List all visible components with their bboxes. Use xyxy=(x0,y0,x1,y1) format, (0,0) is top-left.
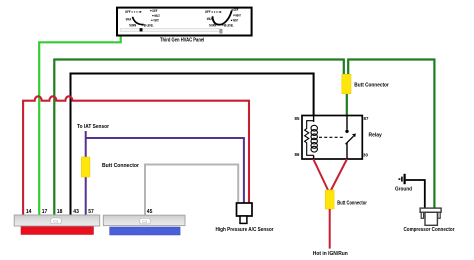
svg-text:Hot in IGN/Run: Hot in IGN/Run xyxy=(313,251,348,257)
dial 1 position dots xyxy=(142,10,154,26)
dial 1 labels xyxy=(125,8,160,28)
svg-text:18: 18 xyxy=(57,209,63,215)
panel slider black marker xyxy=(140,28,143,31)
compressor connector right tab xyxy=(438,212,440,218)
wire: gray C1 pin 45 to A/C sensor xyxy=(145,165,238,216)
svg-text:Ground: Ground xyxy=(395,186,412,192)
relay dashed actuator line xyxy=(319,136,344,138)
ground wire from compressor connector xyxy=(406,180,425,208)
panel slider gray cap xyxy=(219,29,222,34)
dial 2 labels xyxy=(205,7,241,27)
relay coil left branch with zigzag xyxy=(305,121,314,156)
svg-text:14: 14 xyxy=(26,209,32,215)
svg-text:OFF: OFF xyxy=(125,9,131,14)
high pressure A/C sensor tab xyxy=(240,216,247,223)
svg-text:30: 30 xyxy=(363,153,368,158)
butt connector B2 top right xyxy=(342,74,351,94)
compressor connector top bar xyxy=(420,208,441,212)
compressor connector left tab xyxy=(421,212,423,218)
connector C1 (red) body xyxy=(14,215,100,226)
dial 1 knob arc xyxy=(133,17,144,25)
svg-text:DEF: DEF xyxy=(234,7,239,12)
svg-text:C1: C1 xyxy=(142,220,147,224)
wire: dark green butt connector to relay pin 87 xyxy=(346,94,348,116)
relay coil loops xyxy=(311,125,317,152)
wire: purple branch to A/C sensor xyxy=(86,138,244,203)
svg-text:85: 85 xyxy=(295,116,300,121)
wire: red C1 pin 14 to A/C sensor with hops xyxy=(23,96,249,215)
svg-text:57: 57 xyxy=(88,209,94,215)
svg-text:MAX: MAX xyxy=(207,16,213,21)
wire: black C1 pin 43 to relay coil 85 xyxy=(71,74,314,216)
svg-text:Butt Connector: Butt Connector xyxy=(337,201,367,207)
wire: purple C1 pin 57 to IAT / A/C sensor xyxy=(85,131,87,215)
dial 1 OFF dashed pointer xyxy=(132,11,140,13)
svg-text:Third Gen HVAC Panel: Third Gen HVAC Panel xyxy=(160,38,205,44)
connector C1 (red) tag xyxy=(51,218,61,224)
svg-text:C1: C1 xyxy=(53,220,58,224)
wire: red relay 30 diagonal to butt connector xyxy=(331,159,347,191)
panel slider strip xyxy=(121,28,222,31)
svg-text:MAX: MAX xyxy=(126,16,132,21)
HVAC panel box xyxy=(117,8,252,36)
dial 2 position dots xyxy=(222,9,234,25)
wire: red hot feed xyxy=(329,209,331,249)
svg-text:45: 45 xyxy=(147,209,153,215)
svg-text:86: 86 xyxy=(295,152,300,157)
svg-text:43: 43 xyxy=(73,209,79,215)
relay fixed contact dot xyxy=(345,130,348,133)
pin labels C1 left xyxy=(26,209,94,215)
svg-text:87: 87 xyxy=(364,116,369,121)
wire: light green panel to C1 pin 17 xyxy=(39,37,121,216)
dial 2 knob arc xyxy=(213,11,232,25)
svg-text:Compressor Connector: Compressor Connector xyxy=(404,227,455,233)
dial 2 OFF dashed pointer xyxy=(212,11,220,13)
ground symbol xyxy=(399,174,404,184)
relay K1 box xyxy=(302,116,362,160)
wire: red relay 86 diagonal to butt connector xyxy=(313,159,328,191)
svg-text:NORM: NORM xyxy=(129,22,136,27)
relay pin 87 lead xyxy=(346,116,348,130)
relay coil bottom exit xyxy=(313,155,315,159)
relay coil feed wire xyxy=(313,116,315,122)
svg-text:17: 17 xyxy=(42,209,48,215)
relay pin 30 lead xyxy=(346,143,348,159)
butt connector B1 on purple wire xyxy=(81,157,90,177)
connector C1 (blue) body xyxy=(103,215,185,225)
connector C1 (red) base xyxy=(21,227,94,235)
high pressure A/C sensor body xyxy=(237,203,253,216)
compressor connector body xyxy=(425,212,437,225)
svg-text:Butt Connector: Butt Connector xyxy=(102,163,139,169)
connector C1 (blue) base xyxy=(110,227,181,235)
svg-text:To IAT Sensor: To IAT Sensor xyxy=(77,124,109,130)
wire: dark green butt connector to compressor connector xyxy=(348,60,434,209)
svg-text:BI-LEVEL: BI-LEVEL xyxy=(144,22,154,27)
butt connector B3 bottom xyxy=(325,190,334,209)
connector C1 (blue) tag xyxy=(140,218,150,224)
wire: dark green C1 pin 18 to butt connector xyxy=(54,60,344,216)
relay switch arm xyxy=(346,136,354,144)
svg-text:Relay: Relay xyxy=(369,133,383,139)
svg-text:OFF: OFF xyxy=(205,9,211,14)
svg-text:High Pressure A/C Sensor: High Pressure A/C Sensor xyxy=(216,227,275,233)
relay pin labels xyxy=(295,116,369,158)
svg-text:VENT: VENT xyxy=(153,18,159,23)
svg-text:Butt Connector: Butt Connector xyxy=(354,83,389,89)
